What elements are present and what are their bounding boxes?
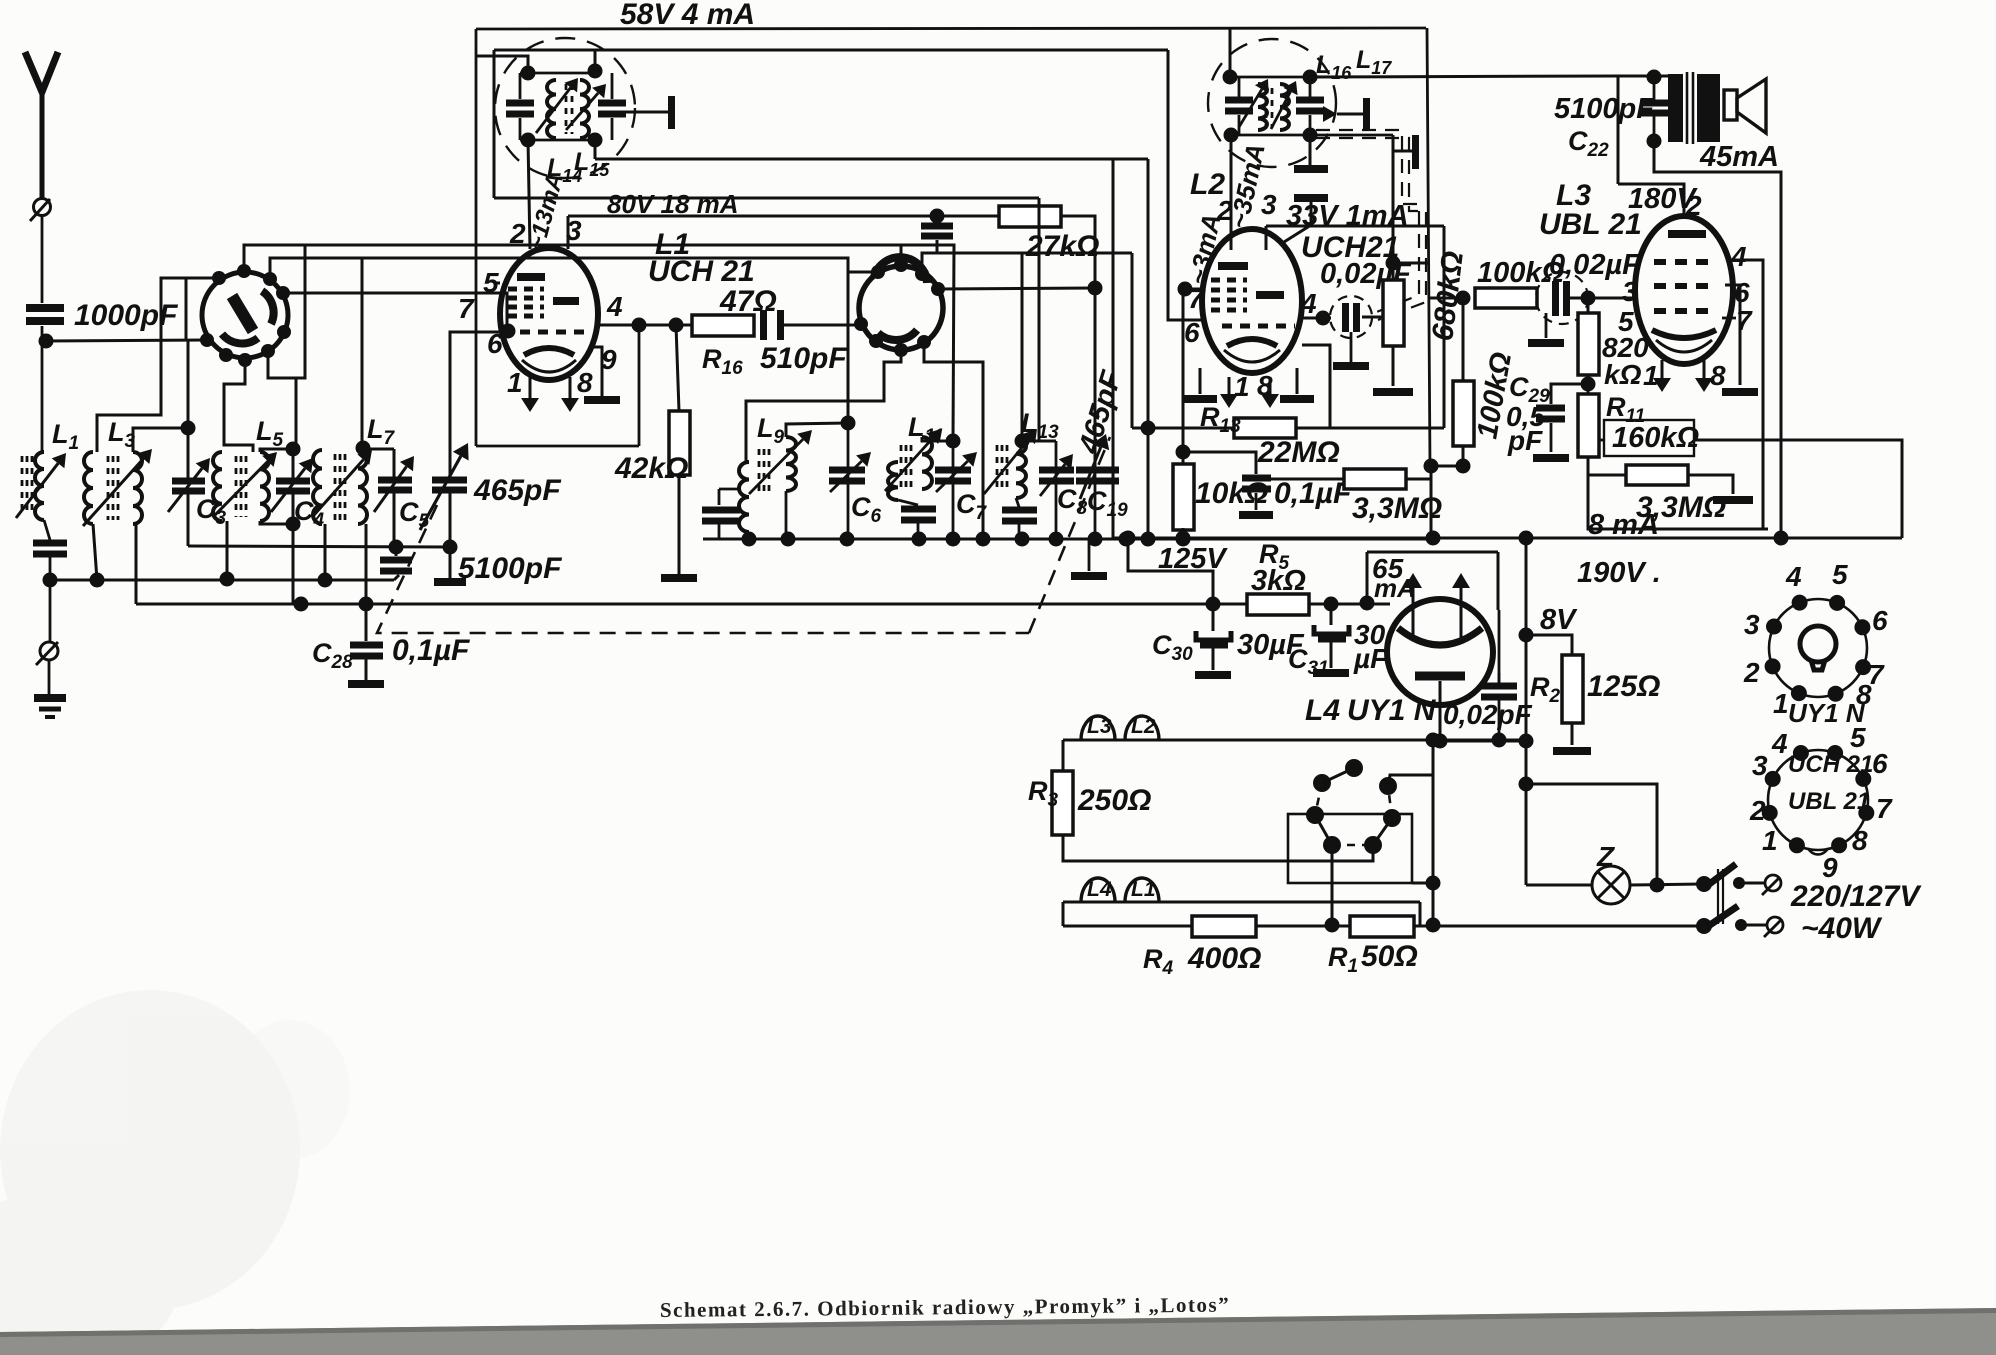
- trimmer arrow through L1: [16, 453, 66, 518]
- tube L3 inner bottom arc: [1656, 340, 1712, 352]
- rail L16 top: [1230, 76, 1310, 79]
- box tube L2 right: [1443, 226, 1446, 428]
- wire switch pin TR rail 258: [270, 258, 362, 279]
- band switch pin BR: [261, 344, 275, 358]
- wire L13 cap to bus: [1018, 524, 1021, 539]
- wire L11 cap to bus: [917, 523, 920, 539]
- wire C6 vertical: [847, 423, 850, 539]
- bottom page-edge grey band: [0, 1308, 1996, 1355]
- wire L15 to grid terminal: [626, 111, 668, 114]
- stub L16 cap: [1238, 77, 1241, 97]
- switch lower contact right: [1735, 919, 1747, 931]
- oscillator wafer pin TR: [915, 267, 929, 281]
- node C4 top: [286, 442, 301, 457]
- node 10k top: [1176, 445, 1191, 460]
- tube L4 heater arrow 1: [1404, 573, 1422, 640]
- wire antenna to connector: [41, 88, 44, 198]
- selector box to node: [1412, 882, 1433, 885]
- trimmer arrow L17: [1271, 81, 1298, 129]
- wire 45mA line: [1654, 141, 1781, 538]
- wire L16 left leg down: [1230, 166, 1233, 250]
- trimmer arrow L16: [1239, 79, 1269, 127]
- wire C5 top: [393, 449, 396, 477]
- speaker cone rect: [1724, 90, 1737, 120]
- IF transformer II dashed circle: [1208, 39, 1336, 167]
- capacitor osc grid: [921, 223, 953, 240]
- trimmer arrow C6: [830, 452, 871, 492]
- node bus: [318, 573, 333, 588]
- node L16 top: [1223, 70, 1238, 85]
- wire switch pin T up-over: [244, 245, 302, 271]
- wire L11 cap stub: [898, 500, 918, 505]
- coil L17: [1280, 84, 1289, 130]
- wire rail 245 to oscillator: [302, 245, 954, 441]
- wire UBL pin4: [1727, 260, 1763, 529]
- svg-text:160kΩ: 160kΩ: [1612, 422, 1700, 454]
- svg-text:L3: L3: [1087, 715, 1112, 738]
- resistor R5: [1247, 594, 1309, 615]
- node C3 top: [181, 421, 196, 436]
- svg-text:220/127V: 220/127V: [1790, 880, 1922, 913]
- svg-text:8 mA: 8 mA: [1588, 509, 1659, 541]
- svg-text:3: 3: [1744, 609, 1760, 640]
- node L7 top: [356, 441, 371, 456]
- wire L7 top rail to C5: [363, 448, 394, 451]
- node bus 1183: [1176, 531, 1191, 546]
- capacitor 0,02pF: [1481, 683, 1517, 701]
- wire 5100pF to bus tick: [394, 575, 399, 580]
- dashed coupling line a: [1316, 130, 1419, 313]
- ground bar tube L2 left: [1183, 395, 1217, 403]
- selector link dashed 3: [1388, 786, 1392, 818]
- band switch pin T: [237, 264, 251, 278]
- wire bus2 to C28: [365, 604, 368, 641]
- node lamp junction: [1650, 878, 1665, 893]
- band switch pin TL: [212, 271, 226, 285]
- node L13 top: [1015, 434, 1030, 449]
- node tube L1 pin7: [501, 324, 516, 339]
- tube L2 pin8 arrow: [1261, 377, 1279, 408]
- capacitor C3 variable: [172, 478, 205, 495]
- svg-text:9: 9: [1822, 852, 1838, 883]
- node osc bus x788: [781, 532, 796, 547]
- bus mains: [1063, 925, 1704, 928]
- wire switch pin TR down to L7: [361, 258, 364, 448]
- dashed gang line: [377, 505, 1029, 633]
- svg-text:400Ω: 400Ω: [1187, 942, 1261, 975]
- capacitor C7 variable: [935, 467, 971, 485]
- frame left vertical 58V: [475, 29, 478, 446]
- wire connector to C 1000pF: [41, 216, 44, 303]
- wire L1 to series cap: [44, 520, 50, 540]
- svg-text:L1: L1: [1131, 878, 1156, 901]
- coil L11 right: [922, 437, 932, 489]
- wire 42k top: [676, 325, 679, 411]
- svg-text:8: 8: [1852, 825, 1868, 856]
- node 8V: [1519, 628, 1534, 643]
- wire C31 bottom: [1330, 642, 1333, 668]
- node 100kv bottom: [1456, 459, 1471, 474]
- wire 820k to R11: [1587, 375, 1590, 394]
- winding bump L2: [1125, 716, 1159, 740]
- page-edge shadow line: [0, 1308, 1996, 1337]
- line3 left rise to L15: [594, 140, 597, 159]
- oscillator wafer pin L: [854, 317, 868, 331]
- trimmer arrow L15: [566, 84, 606, 130]
- tube L1 hexode plate: [553, 297, 579, 305]
- node bus L3: [90, 573, 105, 588]
- tube L3 plate bar: [1668, 230, 1706, 238]
- wire C19 vertical: [1094, 466, 1097, 539]
- node OT top: [1647, 70, 1662, 85]
- line 546 to 5100pF node: [188, 546, 450, 547]
- wire x1431 node: [1430, 466, 1433, 540]
- node osc bus x847: [840, 532, 855, 547]
- svg-text:5100pF: 5100pF: [1554, 93, 1655, 125]
- voltage selector contact 1: [1345, 759, 1363, 777]
- capacitor L17 secondary: [1296, 97, 1324, 115]
- grid terminal bar L2: [1412, 135, 1419, 169]
- node 100k left: [1456, 291, 1471, 306]
- node L15 top: [588, 64, 603, 79]
- svg-text:6: 6: [1872, 605, 1888, 636]
- wire cap down to tube L2: [1284, 202, 1311, 242]
- wire cathode line: [1440, 740, 1526, 743]
- wire 0,02 left-bottom stub: [1545, 313, 1548, 338]
- wire cap top to frame: [1498, 610, 1501, 686]
- wire R11 bottom: [1588, 457, 1768, 529]
- wire pin7 avc vertical: [1182, 289, 1185, 464]
- capacitor C8 variable: [1039, 467, 1074, 485]
- ground bar under R2: [1553, 747, 1591, 755]
- node bus C3: [220, 572, 235, 587]
- tube L3 pin1 arrow: [1653, 360, 1671, 392]
- wire C3 up to antenna wire: [187, 340, 190, 428]
- svg-text:3: 3: [1261, 189, 1277, 220]
- wire tube L2 foot right: [1296, 368, 1299, 394]
- wire L17 top to speaker line: [1310, 76, 1618, 77]
- stub C22 bottom: [1653, 116, 1656, 141]
- band switch pin R: [276, 286, 290, 300]
- node L17 top: [1303, 70, 1318, 85]
- svg-text:8V: 8V: [1540, 604, 1578, 636]
- svg-text:4: 4: [1771, 728, 1788, 759]
- svg-text:6: 6: [1184, 317, 1200, 348]
- wire switch pin R to tube pin7: [283, 293, 507, 331]
- node osc bus x983: [976, 532, 991, 547]
- stub L17 capb: [1309, 115, 1312, 135]
- chassis bar under C29: [1533, 454, 1569, 462]
- node R1 right: [1426, 918, 1441, 933]
- tube L1 grid rows: [508, 289, 544, 316]
- wire x1526 vertical: [1525, 538, 1528, 885]
- wire dashed node to terminal: [1394, 150, 1412, 153]
- svg-text:6: 6: [487, 328, 503, 359]
- capacitor C19 variable: [1076, 467, 1119, 485]
- capacitor 465pF variable: [432, 477, 467, 494]
- core IF2 dashes: [1266, 88, 1272, 128]
- node L14 bottom: [521, 133, 536, 148]
- wire x1132 drop: [1131, 253, 1134, 428]
- wire L4 top right: [1497, 552, 1500, 610]
- svg-text:3,3MΩ: 3,3MΩ: [1352, 492, 1442, 525]
- wire 42M? frame: [1366, 552, 1369, 603]
- svg-text:UCH 21: UCH 21: [1788, 751, 1873, 778]
- trimmer arrow through C3: [168, 458, 210, 512]
- wire cap to node B: [49, 557, 52, 580]
- trimmer arrow L14: [536, 78, 578, 133]
- wire L13 bottom stub: [1016, 498, 1019, 507]
- wire 22M to cap01: [1183, 452, 1256, 474]
- svg-text:47Ω: 47Ω: [719, 285, 777, 318]
- node C4 bottom: [286, 517, 301, 532]
- svg-text:22MΩ: 22MΩ: [1257, 436, 1340, 469]
- switch lower stub: [1741, 924, 1766, 927]
- wire tube L2 foot left: [1199, 368, 1202, 394]
- wire L3 primary top up: [97, 278, 214, 452]
- node winding x1433: [1426, 733, 1441, 748]
- svg-text:1: 1: [1762, 825, 1778, 856]
- resistor 27k: [999, 206, 1061, 227]
- wire 680k bottom: [1392, 346, 1395, 386]
- wire 33Mr right: [1688, 475, 1733, 494]
- capacitor L13 padding: [1002, 507, 1037, 525]
- resistor R1: [1350, 916, 1414, 937]
- svg-text:5: 5: [1832, 559, 1848, 590]
- capacitor L15 secondary: [598, 100, 626, 118]
- svg-text:6: 6: [1872, 748, 1888, 779]
- tube L2 hexode plate: [1256, 291, 1284, 299]
- selector tap up: [1388, 775, 1433, 786]
- svg-text:2: 2: [1743, 657, 1760, 688]
- wire L3 primary bottom to bus: [93, 524, 97, 580]
- wire connector to ground: [48, 660, 51, 697]
- selector link dashed 2: [1332, 844, 1373, 847]
- wire UBL pin7 stub: [1722, 317, 1736, 320]
- svg-text:L2: L2: [1131, 715, 1156, 738]
- wire 8V to R2: [1526, 635, 1572, 655]
- resistor R13: [1234, 418, 1296, 438]
- wire C5 down to line546: [393, 493, 396, 547]
- wire R5 right: [1309, 603, 1386, 606]
- wire switch T drop to L5: [296, 245, 305, 378]
- svg-text:8: 8: [1710, 360, 1726, 391]
- wire node down to chassis bar: [449, 547, 452, 578]
- voltage selector contact 3: [1306, 806, 1324, 824]
- svg-text:0,1µF: 0,1µF: [392, 634, 470, 667]
- stub cap bottom: [936, 240, 939, 253]
- voltage selector contact 2: [1313, 774, 1331, 792]
- node 680k top: [1386, 256, 1401, 271]
- wire 465pF top to tube grid line: [450, 332, 508, 480]
- node L9 top rail: [841, 416, 856, 431]
- resistor R4: [1192, 916, 1256, 937]
- wire R13 line: [1132, 427, 1234, 430]
- svg-text:1: 1: [1643, 360, 1659, 391]
- svg-text:465pF: 465pF: [473, 474, 561, 507]
- band switch pin RM: [277, 325, 291, 339]
- bus line2: [494, 49, 1168, 52]
- ground bar UBL pin6: [1722, 388, 1758, 396]
- node osc bus x1022: [1015, 532, 1030, 547]
- wire L3 secondary top to C3 node: [133, 428, 183, 452]
- tube L2 grid rows: [1211, 280, 1247, 310]
- box tube L2 top: [1266, 225, 1444, 228]
- wire C30 bottom: [1212, 648, 1215, 670]
- IF transformer I dashed circle: [495, 38, 635, 178]
- wire C29 branch: [1551, 384, 1588, 404]
- node pin4 a: [632, 318, 647, 333]
- wire L9 right coil to bus: [785, 491, 788, 539]
- svg-text:5100pF: 5100pF: [458, 552, 562, 585]
- wire 1431-1463 link: [1431, 465, 1463, 468]
- wire L9 left coil to bus: [748, 532, 751, 539]
- tube L2 triode plate: [1218, 262, 1248, 270]
- tube L2 envelope: [1202, 229, 1302, 373]
- wire C8 vertical: [1055, 441, 1058, 539]
- frame line2 left vertical: [493, 50, 496, 198]
- wire 100kv bottom stub: [1462, 446, 1465, 466]
- capacitor L14 primary: [506, 100, 534, 118]
- tube L1 cathode arc: [524, 348, 574, 355]
- arrowhead L17 output: [1323, 106, 1337, 122]
- wire tube L1 pin4 line: [598, 324, 692, 327]
- capacitor 0,1uF decoupling: [1242, 475, 1271, 493]
- coil L11 left: [888, 462, 898, 500]
- wire C30 stub: [1212, 604, 1215, 631]
- frame bottom under tube L1: [476, 445, 639, 448]
- node cathode x1526: [1519, 734, 1534, 749]
- tube L4 cathode bar: [1415, 672, 1465, 681]
- chassis bar right of C19: [1071, 572, 1107, 580]
- svg-text:50Ω: 50Ω: [1361, 940, 1418, 973]
- core IF1 dashes: [566, 84, 572, 134]
- tube L2 lower grid dashes: [1222, 324, 1295, 329]
- coil L14: [547, 80, 556, 138]
- bus 58V top: [476, 28, 1426, 29]
- wire switch pin BR to C4 node: [268, 351, 296, 449]
- voltage selector contact 4: [1323, 836, 1341, 854]
- wire cap line right: [937, 252, 1132, 255]
- wire pin7 node into tube: [450, 331, 513, 334]
- rail L14 bottom: [520, 139, 595, 142]
- capacitor L16 primary: [1225, 97, 1253, 115]
- svg-text:L4: L4: [1087, 878, 1112, 901]
- output transformer core: [1687, 72, 1693, 144]
- wire x1433 long: [1432, 740, 1435, 775]
- switch upper contact right: [1733, 877, 1745, 889]
- scan noise left-bottom: [0, 990, 350, 1355]
- chassis bar under coupling cap: [1528, 339, 1564, 347]
- coil L5 transformer: [213, 452, 269, 521]
- winding line top: [1063, 739, 1526, 742]
- wire tube L1 pin3 to 80V bus: [567, 216, 570, 249]
- wire C 1000pF to node A: [41, 326, 44, 341]
- ground bar under trimmer: [1333, 362, 1369, 370]
- wire osc BR drop: [924, 342, 983, 539]
- svg-text:58V 4 mA: 58V 4 mA: [620, 0, 755, 31]
- capacitor 510pF: [760, 310, 784, 340]
- svg-text:µF: µF: [1353, 643, 1388, 674]
- svg-text:27kΩ: 27kΩ: [1025, 230, 1099, 263]
- tube L4 anode arc: [1398, 628, 1482, 645]
- wire osc bottom bracket: [746, 350, 901, 462]
- band switch pin LM: [200, 333, 214, 347]
- coil L3 transformer: [84, 452, 142, 524]
- wire L16 bottom down: [1230, 135, 1233, 166]
- svg-text:42kΩ: 42kΩ: [614, 452, 688, 485]
- box tube L2 left stub: [1265, 226, 1268, 250]
- wire C7 vertical: [952, 441, 955, 539]
- trimmer arrow through L7: [314, 450, 372, 515]
- node osc bus x1056: [1049, 532, 1064, 547]
- node R5 left: [1206, 597, 1221, 612]
- wire R13 right to cathode: [1296, 345, 1330, 428]
- wire C4 down: [292, 494, 295, 524]
- svg-text:pF: pF: [1507, 425, 1543, 456]
- node A junction: [39, 334, 54, 349]
- tube L2 inner bottom arc: [1224, 350, 1280, 362]
- wire coupling to pin3: [1570, 297, 1638, 300]
- svg-text:7: 7: [458, 293, 475, 324]
- trimmer arrow C8: [1040, 454, 1073, 496]
- oscillator wafer pin R: [931, 282, 945, 296]
- node 33M x1431: [1424, 459, 1439, 474]
- node bypass: [1519, 777, 1534, 792]
- stub cap top: [936, 216, 939, 222]
- coil L13: [1016, 439, 1026, 498]
- svg-text:0,02pF: 0,02pF: [1443, 699, 1533, 730]
- svg-text:5: 5: [1850, 722, 1866, 753]
- trimmer arrow through L3: [83, 449, 152, 526]
- trimmer arrow through C5: [374, 456, 414, 512]
- selector link solid 3: [1373, 818, 1392, 845]
- switch upper contact left: [1696, 876, 1712, 892]
- node bus 1128: [1121, 531, 1136, 546]
- capacitor 1000pF: [26, 304, 64, 325]
- svg-text:UCH 21: UCH 21: [648, 255, 755, 288]
- ground symbol antenna: [34, 694, 66, 719]
- wire OT top rail: [1618, 75, 1668, 78]
- stub L15 cap bottom: [611, 118, 614, 140]
- capacitor C6 variable: [829, 467, 865, 485]
- svg-text:125Ω: 125Ω: [1587, 670, 1660, 703]
- node bus2 a: [294, 597, 309, 612]
- socket diagram UY1N: [1765, 595, 1872, 702]
- node L15 bottom: [588, 133, 603, 148]
- resistor 680k: [1383, 280, 1404, 346]
- chassis bar under C30: [1195, 671, 1231, 679]
- wire UBL pin6: [1725, 285, 1740, 385]
- node bus2 b: [359, 597, 374, 612]
- wire trimmer to 680k: [1362, 316, 1393, 319]
- capacitor C30 electrolytic: [1196, 631, 1231, 649]
- resistor 3,3M right: [1626, 465, 1688, 485]
- bus 190V: [1113, 537, 1902, 540]
- core L11 dashes: [901, 445, 911, 490]
- wire 820k top: [1587, 298, 1590, 313]
- wire line4 drop low: [1038, 198, 1041, 441]
- wire R11 to 160k box: [1599, 439, 1604, 442]
- stub L16 capb: [1238, 115, 1241, 135]
- node 5100pF top: [389, 540, 404, 555]
- rail L14 top: [520, 72, 595, 75]
- capacitor C29: [1536, 405, 1565, 423]
- wire L7 primary bottom to bus: [324, 524, 327, 580]
- winding bottom left leg: [1062, 902, 1065, 926]
- wire R13 line to box: [1330, 427, 1444, 430]
- node 80V cap: [930, 209, 945, 224]
